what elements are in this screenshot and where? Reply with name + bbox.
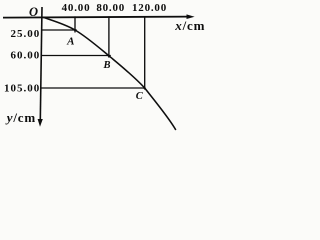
vertical construction line at x=120.00 down to C: [144, 16, 146, 89]
x-axis: [3, 17, 189, 18]
horizontal construction line at y=105.00 to C: [41, 87, 145, 89]
point A dot: [74, 29, 76, 31]
horizontal construction line at y=60.00 to B: [42, 55, 111, 57]
point B dot: [108, 55, 110, 57]
svg-text:105.00: 105.00: [4, 82, 40, 94]
svg-text:60.00: 60.00: [10, 49, 40, 61]
svg-text:120.00: 120.00: [132, 2, 167, 14]
horizontal construction line at y=25.00 to A: [42, 29, 77, 31]
point C dot: [143, 87, 145, 89]
y-axis arrowhead: [38, 119, 43, 127]
trajectory curve through O, A, B, C: [43, 17, 176, 130]
x-axis arrowhead: [187, 14, 195, 19]
vertical construction line at x=80.00 down to B: [108, 16, 110, 57]
svg-text:25.00: 25.00: [10, 28, 40, 40]
svg-text:C: C: [136, 91, 144, 102]
vertical construction line at x=40.00 down to A: [74, 16, 76, 32]
svg-text:40.00: 40.00: [62, 2, 91, 14]
svg-text:x/cm: x/cm: [174, 18, 205, 33]
y-axis: [40, 7, 42, 120]
svg-text:B: B: [102, 60, 110, 71]
svg-text:y/cm: y/cm: [5, 110, 36, 125]
svg-text:O: O: [29, 5, 38, 19]
svg-text:80.00: 80.00: [96, 2, 125, 14]
svg-text:A: A: [66, 36, 74, 48]
